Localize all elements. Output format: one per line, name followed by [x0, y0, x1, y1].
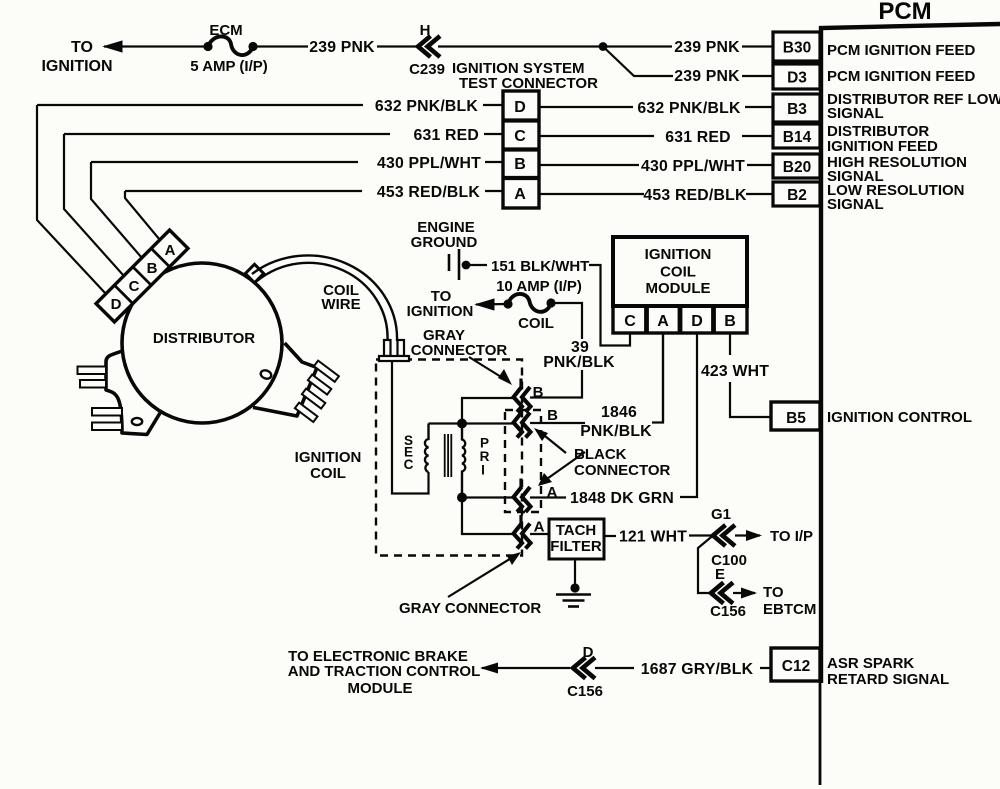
svg-text:EBTCM: EBTCM — [763, 601, 816, 618]
svg-text:239 PNK: 239 PNK — [674, 39, 740, 56]
svg-text:COIL: COIL — [518, 315, 554, 332]
ignition coil primary winding PRI — [462, 428, 465, 493]
wire 631 RED (row C) — [64, 134, 773, 136]
svg-text:CONNECTOR: CONNECTOR — [411, 342, 508, 359]
svg-text:TO I/P: TO I/P — [770, 528, 813, 545]
junction node coil - — [457, 493, 467, 503]
wire 430 PPL/WHT (row B) — [91, 162, 773, 165]
svg-text:239 PNK: 239 PNK — [309, 39, 375, 56]
svg-text:B30: B30 — [783, 40, 811, 57]
right terminal tooth 3 — [302, 389, 325, 409]
connector gray A (tach) — [514, 515, 531, 549]
svg-text:239 PNK: 239 PNK — [674, 68, 740, 85]
svg-text:10 AMP (I/P): 10 AMP (I/P) — [496, 278, 582, 295]
svg-text:IGNITION: IGNITION — [407, 303, 474, 320]
svg-text:151 BLK/WHT: 151 BLK/WHT — [491, 258, 589, 275]
svg-text:C: C — [129, 278, 140, 295]
ground below tach filter — [556, 559, 591, 607]
wire 453 RED/BLK (row A) — [125, 191, 773, 194]
wire to electronic brake module with arrowhead — [480, 663, 570, 674]
ignition coil module box — [613, 237, 747, 306]
wire coil B to gray connector — [429, 398, 514, 424]
terminal B14 — [773, 124, 820, 148]
svg-text:A: A — [165, 242, 176, 259]
svg-text:430 PPL/WHT: 430 PPL/WHT — [377, 155, 481, 172]
svg-text:C: C — [404, 457, 414, 472]
svg-text:D: D — [583, 644, 594, 661]
svg-text:DISTRIBUTOR: DISTRIBUTOR — [153, 330, 255, 347]
svg-text:H: H — [420, 22, 431, 39]
arrow black connector to B — [534, 428, 566, 453]
svg-text:121 WHT: 121 WHT — [619, 529, 687, 546]
svg-text:B: B — [547, 407, 558, 424]
svg-text:632 PNK/BLK: 632 PNK/BLK — [375, 98, 479, 115]
svg-text:IGNITION FEED: IGNITION FEED — [827, 138, 938, 155]
left terminal tooth 2 — [80, 380, 106, 388]
ignition system test connector block — [503, 91, 539, 208]
left terminal tooth 3 — [92, 408, 122, 416]
svg-text:B: B — [533, 384, 544, 401]
terminal B20 — [773, 154, 820, 178]
svg-text:631 RED: 631 RED — [665, 129, 731, 146]
coil wire tower on distributor — [245, 264, 263, 282]
wire 1846 PNK/BLK — [530, 334, 663, 423]
svg-text:GROUND: GROUND — [411, 234, 478, 251]
connector C156 D — [573, 658, 595, 679]
right terminal tooth 1 — [314, 361, 339, 382]
wire 39 PNK/BLK — [530, 303, 582, 398]
wire 1848 DK GRN — [530, 334, 697, 498]
wire 239 PNK to B30 — [438, 45, 773, 47]
wire to I/P with arrowhead — [735, 530, 762, 541]
wire TO IGNITION (coil fuse) with arrowhead — [476, 299, 507, 310]
svg-text:B: B — [514, 156, 526, 173]
svg-text:GRAY CONNECTOR: GRAY CONNECTOR — [399, 600, 541, 617]
wire 632 PNK/BLK (row D) — [37, 105, 773, 107]
wire 121 WHT — [604, 534, 711, 537]
engine ground symbol — [449, 249, 470, 280]
arrow gray connector to B — [469, 357, 512, 385]
svg-text:A: A — [514, 186, 526, 203]
svg-text:AND TRACTION CONTROL: AND TRACTION CONTROL — [288, 663, 480, 680]
black connector dashed boundary — [505, 410, 541, 512]
connector C239 — [418, 36, 440, 57]
svg-text:IGNITION CONTROL: IGNITION CONTROL — [827, 409, 972, 426]
wire secondary lead — [392, 361, 429, 494]
left terminal tooth 4 — [92, 423, 122, 431]
wire: TO IGNITION feed with arrowhead — [104, 41, 207, 52]
left terminal hole — [132, 418, 142, 425]
svg-text:FILTER: FILTER — [550, 538, 602, 555]
svg-text:E: E — [715, 566, 725, 583]
right terminal hole — [260, 369, 273, 380]
right terminal tooth 2 — [308, 375, 331, 395]
ignition coil secondary winding SEC — [425, 424, 429, 473]
svg-text:B2: B2 — [787, 187, 807, 204]
wire branch to EBTCM — [698, 536, 713, 594]
wire to EBTCM with arrowhead — [733, 588, 757, 599]
svg-text:G1: G1 — [711, 506, 731, 523]
wire 151 BLK/WHT — [466, 265, 630, 346]
fuse ECM 5A — [203, 36, 257, 55]
svg-text:PNK/BLK: PNK/BLK — [543, 354, 615, 371]
PCM boundary line — [821, 24, 1000, 683]
svg-text:B20: B20 — [783, 159, 811, 176]
coil wire terminal boot — [379, 340, 409, 361]
svg-text:PCM IGNITION FEED: PCM IGNITION FEED — [827, 42, 976, 59]
svg-text:B5: B5 — [786, 410, 806, 427]
svg-text:C156: C156 — [710, 603, 746, 620]
terminal B2 — [773, 182, 820, 206]
svg-text:C12: C12 — [782, 658, 810, 675]
svg-text:D: D — [514, 99, 526, 116]
wire coil to A terminals — [462, 498, 513, 535]
arrow gray connector to A — [448, 552, 521, 597]
svg-text:PNK/BLK: PNK/BLK — [580, 423, 652, 440]
svg-text:C: C — [624, 313, 636, 330]
left spark terminal — [106, 351, 160, 435]
svg-text:CONNECTOR: CONNECTOR — [574, 462, 671, 479]
wire 423 WHT module B to B5 — [730, 334, 771, 417]
svg-text:SIGNAL: SIGNAL — [827, 105, 884, 122]
terminal D3 — [773, 64, 820, 89]
svg-text:C156: C156 — [567, 683, 603, 700]
left terminal tooth 1 — [78, 367, 107, 375]
svg-text:1848 DK GRN: 1848 DK GRN — [570, 490, 674, 507]
svg-text:MODULE: MODULE — [646, 280, 711, 297]
svg-text:TO: TO — [763, 584, 784, 601]
svg-text:B: B — [147, 260, 158, 277]
junction node coil + — [457, 419, 467, 429]
terminal B3 — [773, 94, 820, 122]
terminal B5 — [771, 402, 820, 430]
gray connector dashed boundary — [376, 360, 522, 556]
svg-text:C: C — [514, 128, 526, 145]
coil wire (double curve) — [252, 255, 397, 341]
distributor body circle — [122, 263, 282, 423]
arrow black connector to A — [538, 452, 585, 486]
svg-text:1687 GRY/BLK: 1687 GRY/BLK — [641, 661, 754, 678]
svg-text:B14: B14 — [783, 129, 812, 146]
svg-text:IGNITION: IGNITION — [295, 449, 362, 466]
connector C100 G1 — [713, 525, 735, 546]
svg-text:I: I — [481, 463, 485, 478]
junction node on 239 PNK — [599, 42, 608, 51]
svg-text:RETARD SIGNAL: RETARD SIGNAL — [827, 671, 949, 688]
svg-text:PCM IGNITION FEED: PCM IGNITION FEED — [827, 68, 976, 85]
svg-text:632 PNK/BLK: 632 PNK/BLK — [637, 100, 741, 117]
right spark terminal — [253, 343, 317, 416]
svg-text:430 PPL/WHT: 430 PPL/WHT — [641, 158, 745, 175]
svg-text:ASR SPARK: ASR SPARK — [827, 655, 914, 672]
svg-text:631 RED: 631 RED — [414, 127, 480, 144]
fuse COIL 10A — [503, 294, 555, 312]
wire module A to 1846 — [662, 334, 664, 423]
terminal B30 — [773, 32, 820, 61]
svg-text:A: A — [657, 313, 669, 330]
svg-text:TO: TO — [71, 39, 93, 56]
wire 1687 GRY/BLK — [595, 667, 771, 669]
svg-text:IGNITION: IGNITION — [41, 58, 112, 75]
wire 239 PNK (fuse to C239) — [253, 45, 416, 47]
svg-text:D: D — [111, 296, 122, 313]
svg-text:B: B — [724, 313, 736, 330]
svg-text:SIGNAL: SIGNAL — [827, 196, 884, 213]
wire chevron to tach filter — [530, 533, 548, 535]
svg-text:ECM: ECM — [209, 22, 242, 39]
right terminal tooth 4 — [295, 403, 318, 422]
svg-text:D: D — [691, 313, 703, 330]
svg-text:1846: 1846 — [601, 404, 637, 421]
terminal C12 — [771, 648, 820, 681]
TACH FILTER box — [549, 519, 604, 559]
svg-text:453 RED/BLK: 453 RED/BLK — [377, 184, 481, 201]
svg-text:COIL: COIL — [310, 465, 346, 482]
svg-text:TACH: TACH — [556, 522, 597, 539]
svg-text:WIRE: WIRE — [321, 296, 360, 313]
svg-text:B3: B3 — [787, 101, 807, 118]
connector black B (1846) — [514, 404, 531, 438]
connector black A (1848) — [514, 479, 531, 513]
connector gray B (39 PNK/BLK) — [514, 379, 531, 413]
distributor 4-pin connector strip — [96, 230, 188, 322]
wire branch to D3 — [603, 47, 773, 77]
svg-text:PCM: PCM — [878, 0, 931, 25]
svg-text:453 RED/BLK: 453 RED/BLK — [643, 187, 747, 204]
connector C156 E — [711, 583, 733, 604]
svg-text:D3: D3 — [787, 70, 807, 87]
svg-text:C239: C239 — [409, 61, 445, 78]
svg-text:5 AMP (I/P): 5 AMP (I/P) — [190, 58, 268, 75]
transformer core — [445, 434, 452, 477]
module pin row — [613, 306, 747, 333]
svg-text:MODULE: MODULE — [348, 680, 413, 697]
svg-text:IGNITION: IGNITION — [645, 246, 712, 263]
svg-text:COIL: COIL — [660, 264, 696, 281]
svg-text:423 WHT: 423 WHT — [701, 363, 769, 380]
